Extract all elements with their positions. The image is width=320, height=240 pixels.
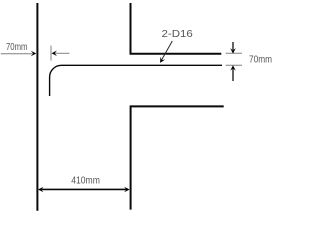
leader line to rebar xyxy=(161,41,172,61)
extension tick (rebar cover offset) xyxy=(50,46,52,61)
right arrowhead xyxy=(124,187,130,193)
leader arrowhead xyxy=(160,57,165,63)
upper slab corner outline xyxy=(131,3,222,54)
down arrow stem xyxy=(232,42,234,50)
up arrow stem xyxy=(232,68,234,81)
arrow line pointing left to tick xyxy=(54,52,70,54)
svg-text:70mm: 70mm xyxy=(6,41,28,53)
svg-text:410mm: 410mm xyxy=(71,175,100,187)
dimension leader line 70mm (left) xyxy=(1,53,33,55)
down arrowhead xyxy=(230,48,236,54)
svg-text:2-D16: 2-D16 xyxy=(162,28,193,40)
right dimension tick (top) xyxy=(226,52,242,54)
up arrowhead xyxy=(230,65,236,71)
left arrowhead xyxy=(38,187,44,193)
right dimension tick (bottom) xyxy=(226,64,242,66)
lower slab corner outline xyxy=(131,106,224,209)
bottom dimension line 410mm xyxy=(40,188,127,190)
rebar 2-D16 with hook xyxy=(50,65,222,96)
arrowhead right at wall xyxy=(31,51,37,57)
svg-text:70mm: 70mm xyxy=(249,53,272,65)
arrowhead left at tick xyxy=(52,51,58,57)
wall face vertical line (left) xyxy=(36,3,38,211)
